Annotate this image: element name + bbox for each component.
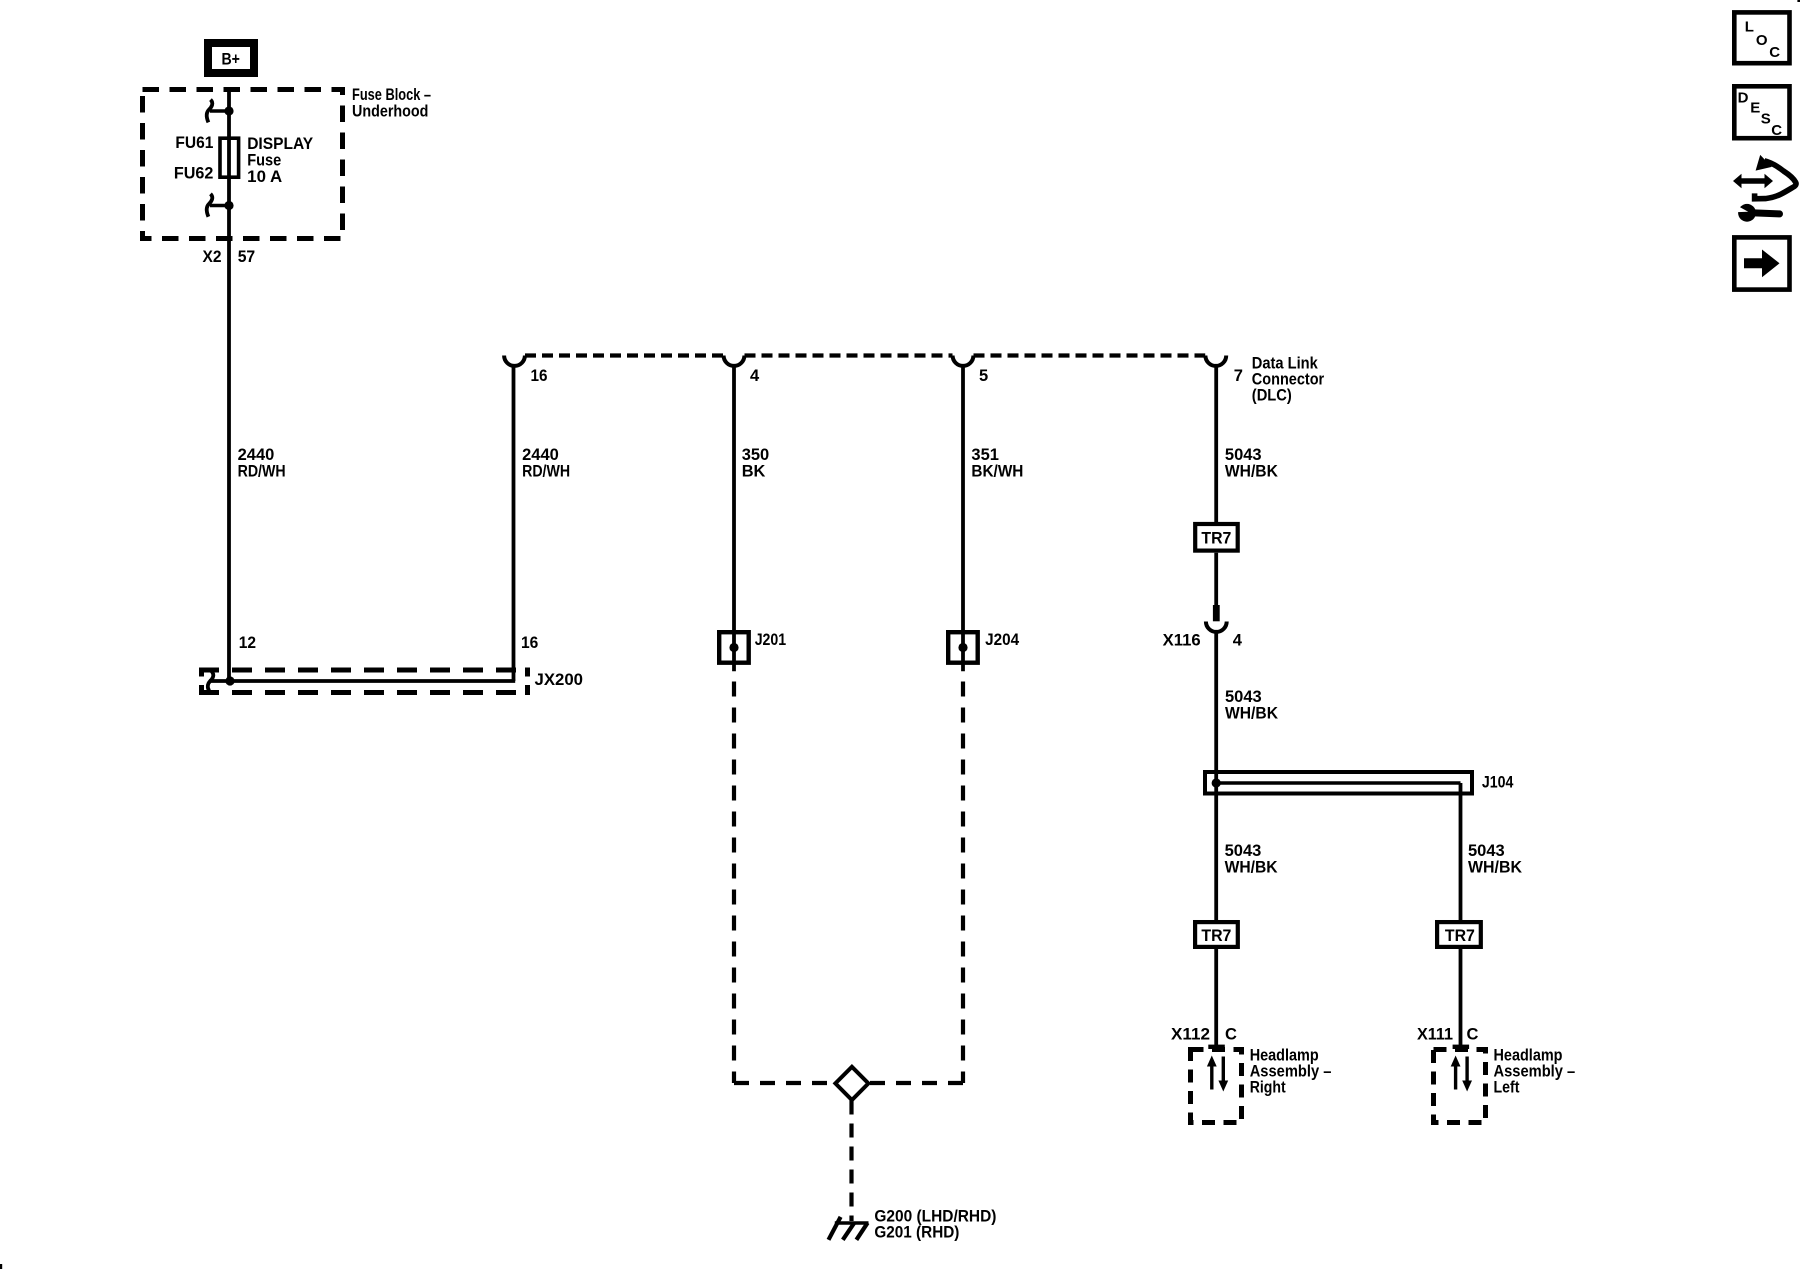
wire J104 right branch down to TR7 lower right [1459,783,1463,920]
svg-text:J104: J104 [1482,774,1514,792]
svg-text:G201 (RHD): G201 (RHD) [874,1224,959,1242]
fuse FU61/FU62 DISPLAY 10A [174,134,313,186]
X111 terminal tick [1453,1045,1470,1049]
headlamp right arrows [1207,1056,1228,1092]
wire DLC5 to J204 [961,366,965,671]
DLC cup pin 16 [504,356,525,366]
wire DLC16 to JX200 [512,366,516,681]
svg-text:C: C [1467,1025,1479,1043]
DLC cup pin 4 [724,356,745,366]
fuse terminal clip bottom [207,194,234,217]
DLC pin numbers [531,367,1243,385]
dashed wire diamond to ground [849,1101,853,1222]
svg-text:X116: X116 [1163,631,1201,649]
X112 pin C labels [1171,1025,1237,1043]
DLC dashed bus line [525,353,1205,357]
svg-text:FU61: FU61 [175,134,213,152]
svg-text:Left: Left [1494,1079,1520,1097]
svg-text:7: 7 [1234,367,1243,385]
wire label 5043 WH/BK lower left [1225,842,1278,877]
svg-text:JX200: JX200 [535,671,584,689]
junction J204 [948,631,1020,663]
svg-text:TR7: TR7 [1445,927,1475,945]
svg-text:Fuse Block –: Fuse Block – [352,86,431,104]
svg-text:RD/WH: RD/WH [238,462,286,480]
svg-text:C: C [1771,122,1782,139]
svg-text:BK: BK [742,462,766,480]
svg-text:2440: 2440 [522,446,559,464]
svg-text:E: E [1750,99,1760,116]
wire label 351 BK/WH [971,446,1023,480]
svg-text:5043: 5043 [1225,688,1262,706]
headlamp assembly right dashed box [1191,1050,1242,1123]
svg-text:C: C [1225,1025,1237,1043]
relay box TR7 upper [1195,524,1238,551]
svg-text:BK/WH: BK/WH [971,462,1023,480]
fuse block - underhood dashed box [143,90,343,239]
splice diamond [835,1067,868,1100]
fuse terminal clip top [207,100,234,123]
X116 labels [1163,631,1243,649]
svg-text:B+: B+ [221,50,240,68]
wire label 2440 RD/WH left [238,446,286,480]
svg-text:WH/BK: WH/BK [1468,858,1522,876]
svg-text:5: 5 [979,367,988,385]
icon DESC box [1734,86,1789,139]
splice pack JX200 dashed box [199,668,530,696]
svg-text:J201: J201 [755,631,787,649]
icon forward arrow box [1734,237,1789,289]
svg-text:(DLC): (DLC) [1252,386,1292,404]
inline connector X116 cup [1206,622,1227,632]
svg-text:TR7: TR7 [1201,927,1231,945]
icon LOC box [1734,12,1789,63]
svg-text:Fuse: Fuse [247,152,281,170]
svg-text:16: 16 [521,634,538,652]
svg-text:RD/WH: RD/WH [522,462,570,480]
ground G200/G201 [829,1208,997,1242]
headlamp assembly left dashed box [1434,1050,1486,1123]
X112 terminal tick [1208,1045,1225,1049]
svg-text:351: 351 [971,446,999,464]
wire label 5043 WH/BK lower right [1468,842,1522,877]
X111 pin C labels [1417,1025,1479,1043]
label Headlamp Assembly - Left [1494,1046,1576,1096]
wire label 5043 WH/BK top [1225,446,1278,480]
connector X2 pin 57 labels [203,248,256,266]
label Fuse Block - Underhood [352,86,431,121]
svg-text:57: 57 [238,248,256,266]
svg-text:DISPLAY: DISPLAY [247,135,313,153]
wire DLC4 to J201 [732,366,736,671]
dashed ground wire horizontal left [734,1081,836,1085]
svg-text:TR7: TR7 [1201,530,1231,548]
headlamp left arrows [1451,1056,1472,1092]
label Data Link Connector (DLC) [1252,354,1325,404]
svg-text:12: 12 [239,634,256,652]
dashed ground wire horizontal right [869,1081,964,1085]
DLC cup pin 7 [1205,356,1226,366]
svg-text:10 A: 10 A [247,168,282,186]
wire label 2440 RD/WH mid [522,446,570,480]
wire label 350 BK [742,446,770,480]
relay box TR7 lower right [1437,922,1481,947]
svg-text:WH/BK: WH/BK [1225,704,1278,722]
svg-text:5043: 5043 [1468,842,1505,860]
dashed ground wire from J201 [732,682,736,1084]
wire label 5043 WH/BK mid [1225,688,1278,723]
svg-text:L: L [1745,18,1754,35]
svg-text:O: O [1756,32,1768,49]
icon diagnostic arrows and wrench [1733,155,1796,222]
DLC cup pin 5 [953,356,974,366]
svg-text:FU62: FU62 [174,164,214,182]
wire from B+ through fuse to JX200 [227,89,231,681]
inline connector X116 pin [1213,605,1220,621]
svg-text:5043: 5043 [1225,842,1262,860]
wire DLC7 to TR7 [1214,366,1218,522]
junction bus J104 [1205,772,1514,794]
svg-text:2440: 2440 [238,446,275,464]
svg-text:X2: X2 [203,248,222,266]
svg-text:X112: X112 [1171,1025,1210,1043]
svg-text:4: 4 [1233,631,1243,649]
svg-text:5043: 5043 [1225,446,1262,464]
svg-text:16: 16 [531,367,548,385]
svg-text:C: C [1769,44,1780,61]
relay box TR7 lower left [1195,922,1238,947]
svg-text:4: 4 [750,367,760,385]
svg-text:Underhood: Underhood [352,103,428,121]
label Headlamp Assembly - Right [1250,1046,1332,1096]
JX200 internal bus [208,671,515,691]
wire X116 to J104 and through to TR7 lower left [1214,632,1218,920]
svg-text:350: 350 [742,446,770,464]
svg-text:J204: J204 [985,631,1020,649]
svg-text:WH/BK: WH/BK [1225,462,1278,480]
page artifact marks [0,1264,2,1269]
svg-text:Right: Right [1250,1079,1286,1097]
wire TR7 to X112 [1214,947,1218,1047]
svg-text:WH/BK: WH/BK [1225,858,1278,876]
dashed ground wire from J204 [961,682,965,1084]
svg-text:S: S [1761,110,1771,127]
svg-text:D: D [1738,90,1749,107]
battery B+ [208,43,254,73]
junction J201 [719,631,786,663]
wire TR7 to X116 pin [1214,553,1218,606]
svg-text:X111: X111 [1417,1025,1453,1043]
wire TR7 to X111 [1459,947,1463,1047]
